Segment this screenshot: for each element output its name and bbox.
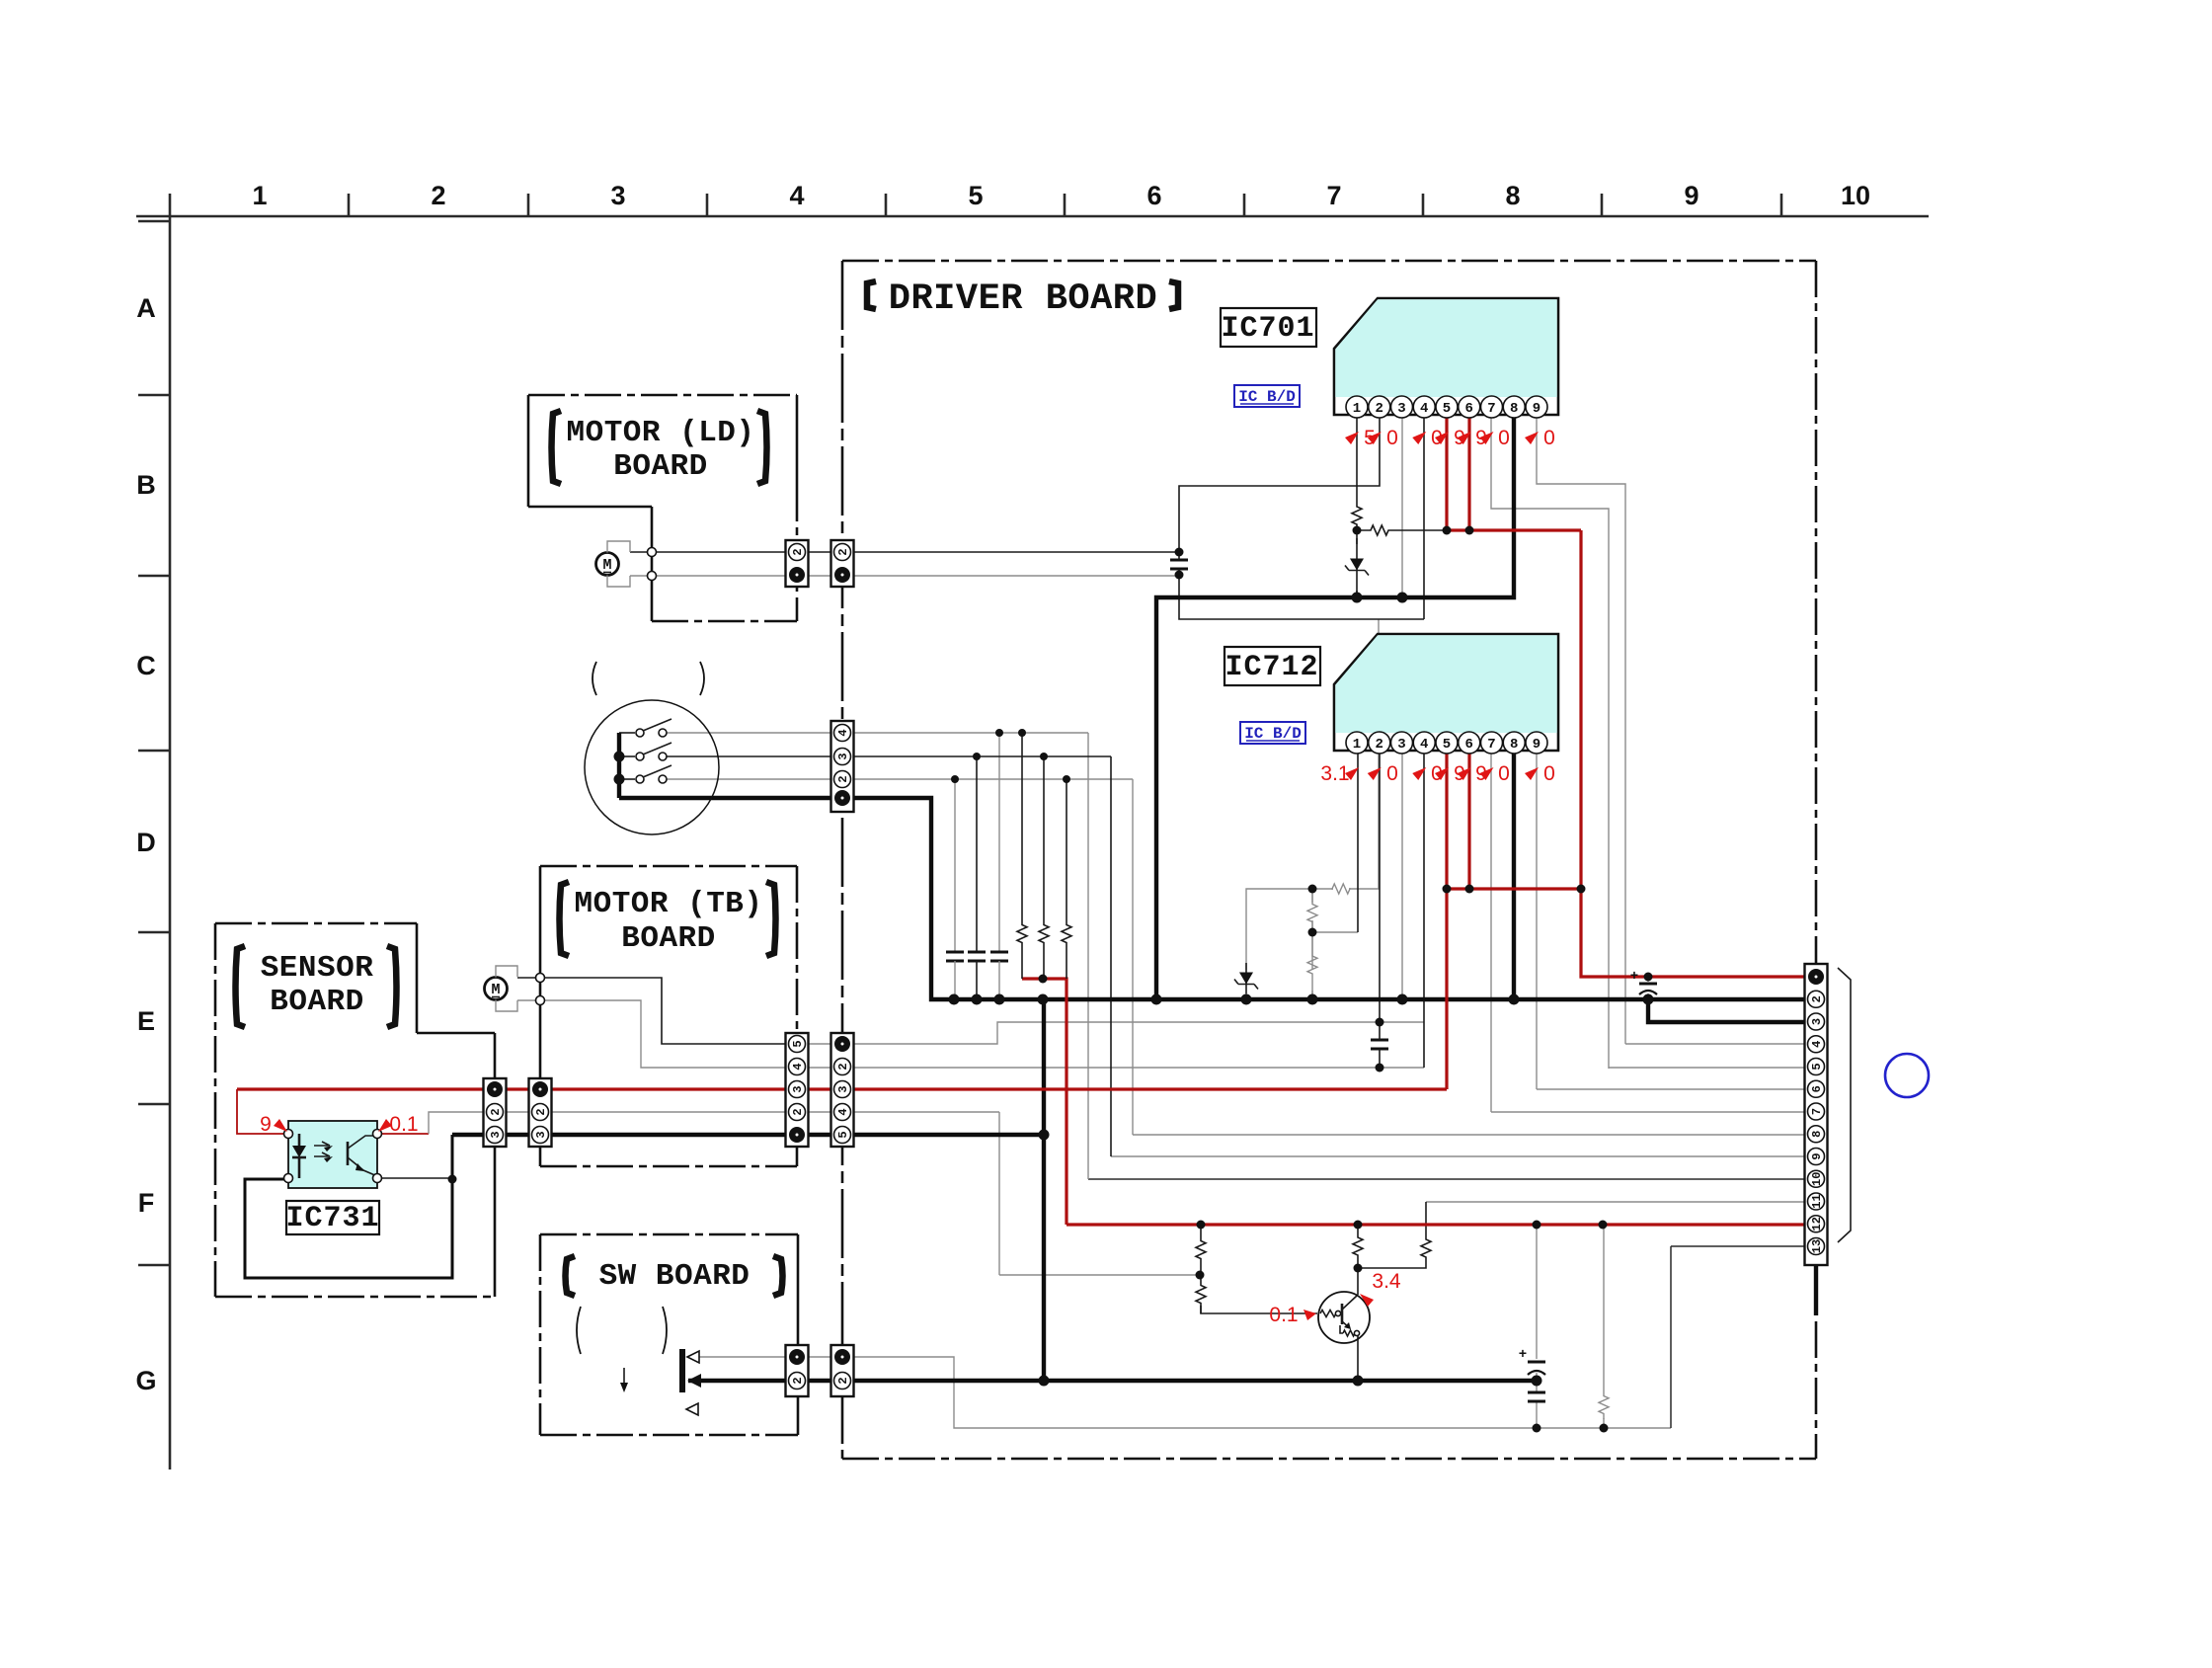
wire switch common thick (619, 796, 830, 800)
wire R2 top lead (1043, 756, 1045, 889)
wire red-bus res riser (1603, 1225, 1604, 1390)
wire p8 gray right (1133, 1134, 1805, 1136)
motor M TB (485, 978, 508, 1000)
wire row E5 thick (853, 1133, 1044, 1137)
svg-text:2: 2 (836, 1063, 850, 1070)
IC701 pin voltages (1345, 432, 1359, 444)
wire cap x1556 links (1536, 1373, 1538, 1428)
MOTOR LD BOARD outline right edge (796, 395, 799, 485)
resistor R12 x1624 (1599, 1390, 1609, 1419)
capacitor C1 bank (946, 951, 964, 954)
svg-text:DRIVER BOARD: DRIVER BOARD (889, 278, 1157, 320)
svg-text:4: 4 (789, 181, 804, 210)
blue circle marker (1885, 1054, 1929, 1097)
svg-text:2: 2 (836, 1377, 850, 1384)
wire p9 row (1111, 1155, 1805, 1157)
wire red-bus cap riser (1536, 1225, 1538, 1359)
IC712 pin voltages (1345, 767, 1359, 780)
wire transistor chain riser (998, 1112, 1000, 1275)
open junction TB top (536, 974, 545, 983)
resistor R2 bank (1039, 889, 1049, 979)
wire p13 row (1671, 1245, 1805, 1247)
svg-text:2: 2 (791, 1377, 805, 1384)
svg-text:+: + (1630, 967, 1638, 983)
wire IC712 pin3 riser (1401, 751, 1403, 999)
connector CN C (786, 1033, 809, 1147)
switch S1 common bar (617, 733, 621, 798)
ruler tick 3 (706, 194, 709, 216)
DRIVER BOARD outline right edge lower (1815, 1265, 1818, 1459)
capacitor C3 bank (990, 951, 1008, 954)
svg-text:SENSOR: SENSOR (261, 951, 374, 986)
svg-text:2: 2 (534, 1108, 548, 1115)
wire R10 to collector (1357, 1268, 1359, 1295)
svg-text:8: 8 (1505, 181, 1520, 210)
motor M LD (596, 553, 619, 576)
switch S1 contacts (619, 732, 635, 734)
svg-text:B: B (136, 470, 156, 500)
svg-text:4: 4 (836, 1108, 850, 1115)
SW parens (577, 1307, 581, 1354)
svg-text:BOARD: BOARD (613, 449, 708, 484)
svg-text:4: 4 (791, 1063, 805, 1070)
wire opto out red stub (377, 1133, 429, 1135)
wire transistor chain gray (999, 1274, 1200, 1276)
svg-text:D: D (136, 828, 156, 857)
resistor R5 chain upper (1307, 894, 1317, 932)
SW BOARD outline right edge (797, 1234, 800, 1345)
MOTOR LD BOARD title (552, 411, 562, 484)
IC712 label box (1224, 647, 1320, 685)
resistor R8 x1216 (1196, 1225, 1206, 1275)
junction dots switch rows (995, 729, 1003, 737)
svg-text:6: 6 (1146, 181, 1161, 210)
ruler side tick y224 (138, 220, 170, 223)
open junction LD bottom (648, 572, 657, 581)
SENSOR BOARD outline bottom edge (215, 1296, 495, 1299)
SW BOARD title (566, 1256, 576, 1296)
wire IC701 pin1 lead (1356, 418, 1358, 501)
wire switch row3 gray (667, 778, 830, 780)
wire G row gray link (809, 1356, 830, 1358)
svg-text:0.1: 0.1 (1269, 1304, 1298, 1326)
svg-text:13: 13 (1810, 1239, 1824, 1253)
switch S1 circle (585, 700, 719, 834)
wire G row gray from SW (688, 1356, 786, 1358)
wire opto emitter link (377, 1177, 452, 1179)
svg-text:3: 3 (489, 1131, 503, 1138)
wire red IC712 pin6 riser (1467, 751, 1470, 889)
op-amp U IC712 block (1334, 634, 1558, 751)
ruler tick 9 (1780, 194, 1783, 216)
svg-text:1: 1 (1353, 401, 1361, 417)
wire red F bus (1066, 1223, 1805, 1226)
capacitor C4 x1194 (1170, 559, 1188, 562)
SW sensor arrow open (687, 1351, 699, 1363)
wire C1 bottom lead (954, 961, 956, 999)
resistor R10 x1375 (1353, 1225, 1363, 1268)
wire IC701 pin9 path (1537, 418, 1625, 1044)
wire red sensor row (237, 1087, 1447, 1090)
resistor R9 x1216 lower (1196, 1275, 1206, 1313)
capacitor C6 pol x1556 (1528, 1361, 1545, 1364)
svg-text:2: 2 (1810, 995, 1824, 1002)
wire p4 right (1625, 1043, 1805, 1045)
wire IC712 pin9 riser (1536, 751, 1538, 1089)
MOTOR TB BOARD outline top edge (540, 865, 797, 868)
capacitor C5 x1397 (1371, 1039, 1388, 1042)
wire IC701 pin2 path (1179, 418, 1380, 552)
DRIVER BOARD title (867, 281, 876, 309)
wire LD upper to cap (809, 551, 1179, 553)
DRIVER BOARD outline right edge upper (1815, 261, 1818, 964)
MOTOR LD BOARD outline right edge lower (796, 485, 799, 621)
border ruler left line (169, 216, 172, 1469)
svg-text:6: 6 (1465, 737, 1473, 753)
wire switch row2 black right (853, 755, 1111, 757)
svg-text:2: 2 (489, 1108, 503, 1115)
capacitor C2 bank (968, 951, 986, 954)
wire IC701 pin4 riser (1423, 418, 1425, 619)
wire red main drop (1581, 530, 1805, 977)
MOTOR TB BOARD title (560, 882, 570, 956)
wire C5 leads (1379, 1022, 1381, 1068)
wire R9 to base (1201, 1306, 1317, 1313)
svg-text:2: 2 (791, 1108, 805, 1115)
svg-text:A: A (136, 293, 156, 323)
MOTOR LD BOARD outline left stem (651, 507, 654, 621)
svg-text:8: 8 (1510, 737, 1518, 753)
DRIVER BOARD outline left edge (841, 261, 844, 1459)
wire C5-D1 link (809, 1043, 830, 1045)
connector CN E (786, 1345, 809, 1396)
IC701 label box (1221, 308, 1316, 347)
wire red IC701 pin5 riser (1445, 418, 1448, 530)
wire p6 gray right (1537, 1088, 1805, 1090)
wire IC701 pin3 riser (1401, 418, 1403, 597)
open junction TB bottom (536, 996, 545, 1005)
wire thick drop x1057 (1042, 999, 1046, 1381)
wire row E2 gray (809, 1067, 1805, 1069)
SW BOARD outline left edge (539, 1234, 542, 1435)
wire p3 jog (1648, 999, 1805, 1022)
wire riser switch row2 to p9 (1110, 756, 1112, 1156)
svg-text:IC701: IC701 (1221, 312, 1314, 346)
wire IC701 pin7 path (1491, 418, 1609, 1069)
svg-text:IC712: IC712 (1224, 651, 1318, 684)
svg-text:+: + (1519, 1345, 1527, 1361)
wire C2 bottom lead (976, 961, 978, 999)
wire TB motor lower gray (517, 1000, 786, 1068)
svg-text:9: 9 (1533, 737, 1540, 753)
wire zener D1 link (1356, 530, 1358, 544)
wire row F link (809, 1111, 830, 1113)
svg-text:2: 2 (836, 775, 850, 782)
wire IC712 pin8 thick (1512, 751, 1516, 999)
wire IC701 pin1 resistor (1352, 501, 1362, 530)
MOTOR TB BOARD outline left edge (539, 866, 542, 1078)
IC712 IC B/D label (1240, 722, 1305, 744)
wire IC712 pin2 riser (1379, 751, 1381, 1022)
wire riser cap3 (998, 733, 1000, 952)
SW BOARD outline right edge lower (797, 1396, 800, 1435)
SW sensor arrow filled (687, 1374, 701, 1388)
svg-text:5: 5 (968, 181, 983, 210)
wire red IC712 row (1447, 887, 1581, 890)
ruler tick 1 (348, 194, 351, 216)
wire switch row3 gray right (853, 778, 1133, 780)
wire sensor ground loop (245, 1135, 452, 1278)
zener D1 IC701 (1356, 538, 1358, 593)
ruler tick 7 (1422, 194, 1425, 216)
wire resistor chain x1329 (1311, 889, 1313, 999)
wire transistor emitter drop (1357, 1335, 1359, 1381)
wire TB motor upper (517, 977, 540, 979)
svg-text:9: 9 (1810, 1152, 1824, 1159)
MOTOR LD BOARD outline bottom-left edge (528, 506, 652, 509)
svg-text:MOTOR (TB): MOTOR (TB) (574, 887, 762, 921)
junction dots small (1443, 526, 1452, 535)
wire chain link y944 (1312, 931, 1358, 933)
svg-text:E: E (137, 1006, 155, 1036)
svg-text:5: 5 (791, 1040, 805, 1047)
svg-text:F: F (138, 1188, 155, 1218)
ruler tick 8 (1601, 194, 1604, 216)
svg-text:3: 3 (1397, 401, 1405, 417)
svg-text:4: 4 (1420, 401, 1428, 417)
SENSOR BOARD outline right jog vertical (416, 923, 419, 1033)
svg-text:SW BOARD: SW BOARD (599, 1259, 750, 1294)
svg-text:7: 7 (1487, 737, 1495, 753)
wire IC712 pin1 riser (1357, 751, 1359, 932)
ruler side tick y760 (138, 750, 170, 753)
svg-text:0: 0 (1386, 427, 1398, 449)
wire zener D1 bottom (1356, 591, 1358, 597)
switch S1 parens (592, 662, 596, 695)
svg-text:2: 2 (791, 548, 805, 555)
svg-text:MOTOR (LD): MOTOR (LD) (566, 416, 754, 450)
svg-text:G: G (135, 1366, 156, 1395)
wire switch row2 black (667, 755, 830, 757)
connector CN LD-b (831, 540, 854, 587)
SW BOARD outline bottom edge (540, 1434, 798, 1437)
svg-text:3.4: 3.4 (1372, 1270, 1401, 1293)
svg-text:9: 9 (1684, 181, 1698, 210)
ruler tick 4 (885, 194, 888, 216)
wire cap1194 bottom to pin4 row (1179, 575, 1424, 619)
svg-text:3.1: 3.1 (1320, 762, 1349, 785)
svg-text:6: 6 (1810, 1085, 1824, 1092)
wire R1 top lead (1021, 733, 1023, 889)
svg-text:BOARD: BOARD (621, 921, 716, 956)
wire G row gray to bottom (853, 1357, 1671, 1428)
resistor R11 x1444 (1421, 1231, 1431, 1266)
svg-text:2: 2 (1376, 737, 1383, 753)
op-amp U IC701 block (1334, 298, 1558, 415)
svg-text:2: 2 (1376, 401, 1383, 417)
svg-text:5: 5 (836, 1131, 850, 1138)
wire IC701 pin8 thick (1156, 418, 1514, 999)
svg-text:1: 1 (1353, 737, 1361, 753)
wire cap x1669 leads (1647, 977, 1649, 999)
ruler side tick y583 (138, 575, 170, 578)
IC701 IC B/D label (1234, 385, 1300, 407)
svg-text:BOARD: BOARD (270, 985, 364, 1019)
ruler tick 0 (169, 194, 172, 216)
svg-text:2: 2 (836, 548, 850, 555)
wire p13 riser (1670, 1246, 1672, 1428)
SW BOARD outline top edge (540, 1233, 798, 1236)
svg-text:3: 3 (610, 181, 625, 210)
SW sensor bar (679, 1349, 685, 1392)
wire p11 row (1426, 1201, 1805, 1203)
svg-text:3: 3 (1397, 737, 1405, 753)
wire sensor thick row (452, 1133, 830, 1137)
DRIVER BOARD outline top edge (842, 260, 1816, 263)
wire p10 row (1088, 1178, 1805, 1180)
DRIVER BOARD outline bottom edge (842, 1458, 1816, 1461)
svg-text:8: 8 (1810, 1131, 1824, 1138)
op-amp IC731 optocoupler (288, 1121, 377, 1188)
MOTOR LD BOARD outline bottom edge (652, 620, 797, 623)
wire IC712 pin4 riser (1423, 751, 1425, 1068)
wire LD motor lower gray (630, 575, 786, 577)
wire red IC701 pin6 riser (1467, 418, 1470, 530)
connector bracket (1838, 968, 1851, 1242)
ruler tick 5 (1064, 194, 1066, 216)
svg-text:10: 10 (1810, 1172, 1824, 1186)
wire LD motor upper (630, 551, 786, 553)
svg-text:3: 3 (1810, 1018, 1824, 1025)
connector CN B (529, 1078, 552, 1147)
capacitor C8 pol x1669 (1639, 983, 1657, 986)
wire p13 stub (1814, 1265, 1818, 1315)
wire TB motor upper inside (540, 978, 786, 1044)
resistor R7 chain h (1332, 884, 1350, 894)
svg-text:IC731: IC731 (285, 1202, 379, 1235)
svg-text:0: 0 (1498, 427, 1510, 449)
wire riser switch row3 to p8 (1132, 779, 1134, 1135)
svg-text:7: 7 (1810, 1108, 1824, 1115)
connector CN A (484, 1078, 507, 1147)
svg-text:4: 4 (1420, 737, 1428, 753)
svg-text:5: 5 (1810, 1063, 1824, 1070)
svg-text:6: 6 (1465, 401, 1473, 417)
svg-text:3: 3 (791, 1085, 805, 1092)
svg-text:11: 11 (1810, 1194, 1824, 1208)
MOTOR TB BOARD outline left edge lower (539, 1147, 542, 1166)
IC731 label box (286, 1201, 379, 1234)
transistor Q1 (1318, 1292, 1370, 1343)
wire row E1 to p4 left (853, 1022, 1424, 1044)
wire red IC712 pin5 riser (1445, 751, 1448, 1089)
wire zener chain right (1349, 619, 1379, 889)
resistor R3 bank (1062, 889, 1071, 979)
wire zener D2 bottom (1245, 993, 1247, 999)
capacitor C7 x1556 (1528, 1391, 1545, 1394)
SW small triangle (686, 1403, 698, 1415)
ruler side tick y944 (138, 931, 170, 934)
wire switch row1 gray right (853, 732, 1088, 734)
SENSOR BOARD outline top edge (215, 922, 417, 925)
MOTOR TB BOARD outline right edge (796, 866, 799, 1166)
wire IC712 pin7 riser (1490, 751, 1492, 1112)
wire sensor opto out gray (429, 1112, 786, 1134)
SENSOR BOARD outline right jog horizontal (417, 1032, 495, 1035)
resistor R1 bank (1017, 889, 1027, 979)
svg-text:1: 1 (252, 181, 267, 210)
wire LD lower gray to cap (809, 575, 1179, 577)
svg-text:3: 3 (836, 1085, 850, 1092)
svg-text:10: 10 (1841, 181, 1870, 210)
SENSOR BOARD title (236, 946, 246, 1027)
wire p11 riser segment (1425, 1202, 1427, 1231)
svg-text:M: M (602, 557, 611, 574)
svg-text:5: 5 (1443, 401, 1451, 417)
svg-text:7: 7 (1326, 181, 1341, 210)
wire row p7 left (853, 1111, 999, 1113)
svg-text:C: C (136, 651, 156, 680)
svg-text:3: 3 (534, 1131, 548, 1138)
ruler side tick y1281 (138, 1264, 170, 1267)
connector CN SW4 (831, 721, 854, 812)
ruler side tick y400 (138, 394, 170, 397)
connector CN main 13pin (1805, 964, 1828, 1265)
svg-text:2: 2 (431, 181, 445, 210)
svg-text:9: 9 (1533, 401, 1540, 417)
svg-text:5: 5 (1443, 737, 1451, 753)
ruler tick 6 (1243, 194, 1246, 216)
wire res x1624 bottom lead (1603, 1418, 1605, 1428)
svg-text:0.1: 0.1 (389, 1113, 418, 1136)
wire riser switch row1 to p10 (1087, 733, 1089, 1179)
connector CN D (831, 1033, 854, 1147)
connector CN F (831, 1345, 854, 1396)
svg-text:12: 12 (1810, 1217, 1824, 1231)
wire C4 leads (1178, 552, 1180, 575)
MOTOR LD BOARD outline top edge (528, 394, 797, 397)
SENSOR BOARD outline left edge (214, 923, 217, 1297)
border ruler top line (136, 215, 1929, 218)
wire zener chain top (1246, 889, 1333, 970)
ruler tick 2 (527, 194, 530, 216)
SENSOR BOARD outline right edge lower (494, 1147, 497, 1297)
wire C3 bottom lead (998, 961, 1000, 999)
svg-text:0: 0 (1543, 427, 1555, 449)
wire main ground bus (853, 798, 1805, 999)
wire red IC701 row (1447, 528, 1581, 531)
svg-text:9: 9 (260, 1113, 272, 1136)
wire red resistor node (1022, 979, 1066, 1225)
wire bottom bus thick (688, 1379, 1537, 1383)
open junction LD top (648, 548, 657, 557)
svg-text:M: M (491, 982, 500, 998)
svg-text:0: 0 (1543, 762, 1555, 785)
wire row p7 right (1491, 1111, 1805, 1113)
svg-text:4: 4 (1810, 1041, 1824, 1048)
wire p11 lower lead (1358, 1266, 1426, 1268)
svg-text:4: 4 (836, 729, 850, 736)
connector CN LD-a (786, 540, 809, 587)
MOTOR LD BOARD outline left edge (527, 395, 530, 507)
wire riser cap2 (976, 756, 978, 952)
SENSOR BOARD outline right edge (494, 1033, 497, 1078)
svg-text:8: 8 (1510, 401, 1518, 417)
MOTOR TB BOARD outline bottom edge (540, 1165, 797, 1168)
resistor R6 chain lower (1307, 932, 1317, 997)
wire red sensor stub (237, 1089, 288, 1134)
junction dots thick (949, 994, 960, 1005)
